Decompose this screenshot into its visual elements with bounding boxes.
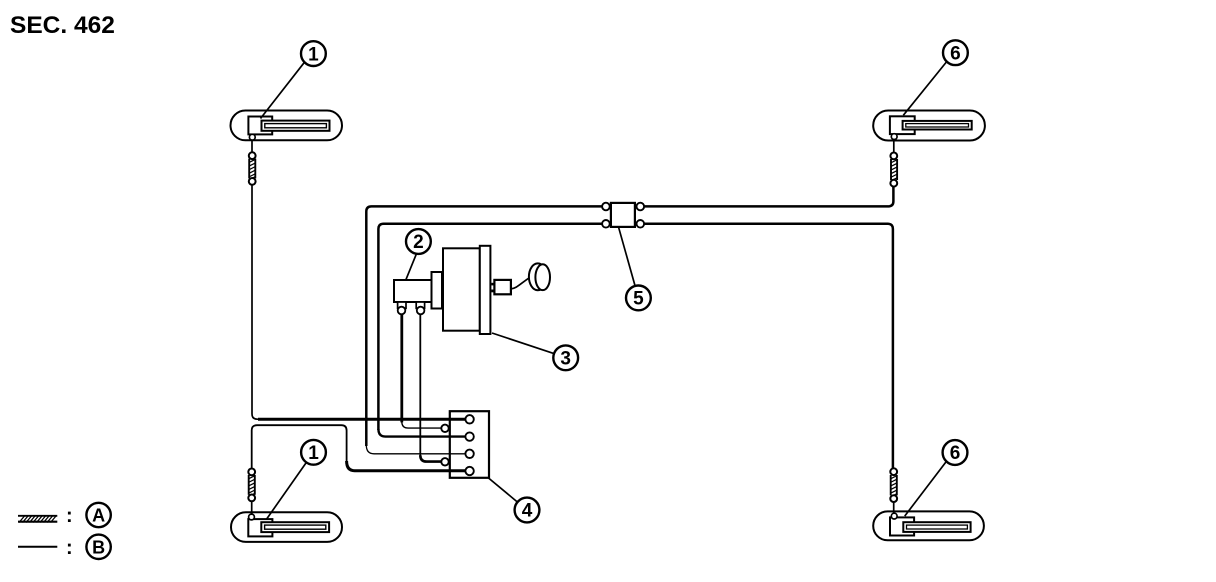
wheel cylinder FR (pill) [873,111,985,141]
svg-text:5: 5 [633,289,644,310]
pipe FR to junction (outer loop right) [644,187,893,207]
connector block 4 [450,411,489,478]
hose FR [890,140,897,187]
brake booster 3 [432,246,491,334]
pipe junction to v2 to block c2 (inner loop left) [378,224,602,437]
master cylinder 2 [394,280,432,314]
callout 6 (rear) [905,440,968,516]
svg-text::: : [66,537,73,559]
svg-text::: : [66,505,73,527]
callout 6 (front) [903,40,968,115]
legend plain line sample B [18,546,57,548]
svg-text:1: 1 [308,443,319,464]
svg-text:4: 4 [522,501,533,522]
svg-text:B: B [92,537,105,557]
hose RL [248,469,255,515]
legend circle B [86,535,110,559]
svg-text:SEC. 462: SEC. 462 [10,12,115,39]
callout 1 (front) [261,41,326,118]
legend hatched line sample A [18,516,57,523]
svg-text:3: 3 [560,349,571,370]
svg-text:2: 2 [413,232,424,253]
pipe RR to junction (inner loop right) [644,224,893,468]
junction connector 5 [602,203,644,228]
callout 4 [489,478,540,522]
callout 5 [619,227,651,310]
svg-text:1: 1 [308,44,319,65]
svg-text:6: 6 [950,43,961,64]
callout 1 (rear) [266,440,326,520]
pipe RL to block (thin, corner, thick A-type) [252,425,465,471]
wheel cylinder FL (pill) [231,111,343,141]
clevis and pedal [491,263,550,294]
block ports (circles) [441,415,474,475]
svg-text:A: A [92,506,105,526]
pipe master cylinder outlet 1 to block fitting 1 [402,314,442,428]
wheel cylinder RR (pill) [873,511,984,540]
callout 2 [406,229,431,281]
pipe master cylinder outlet 2 to block fitting 2 [420,314,441,462]
wheel cylinder RL (pill) [231,512,342,542]
legend circle A [86,503,110,527]
hose RR [890,468,897,513]
callout 3 [492,333,578,370]
pipe junction to v1 to block c3 (outer loop left) [366,206,602,453]
pipe FL to block (thin then thick A-type) [252,185,465,419]
svg-text:6: 6 [950,443,961,464]
hose FL [249,140,256,185]
